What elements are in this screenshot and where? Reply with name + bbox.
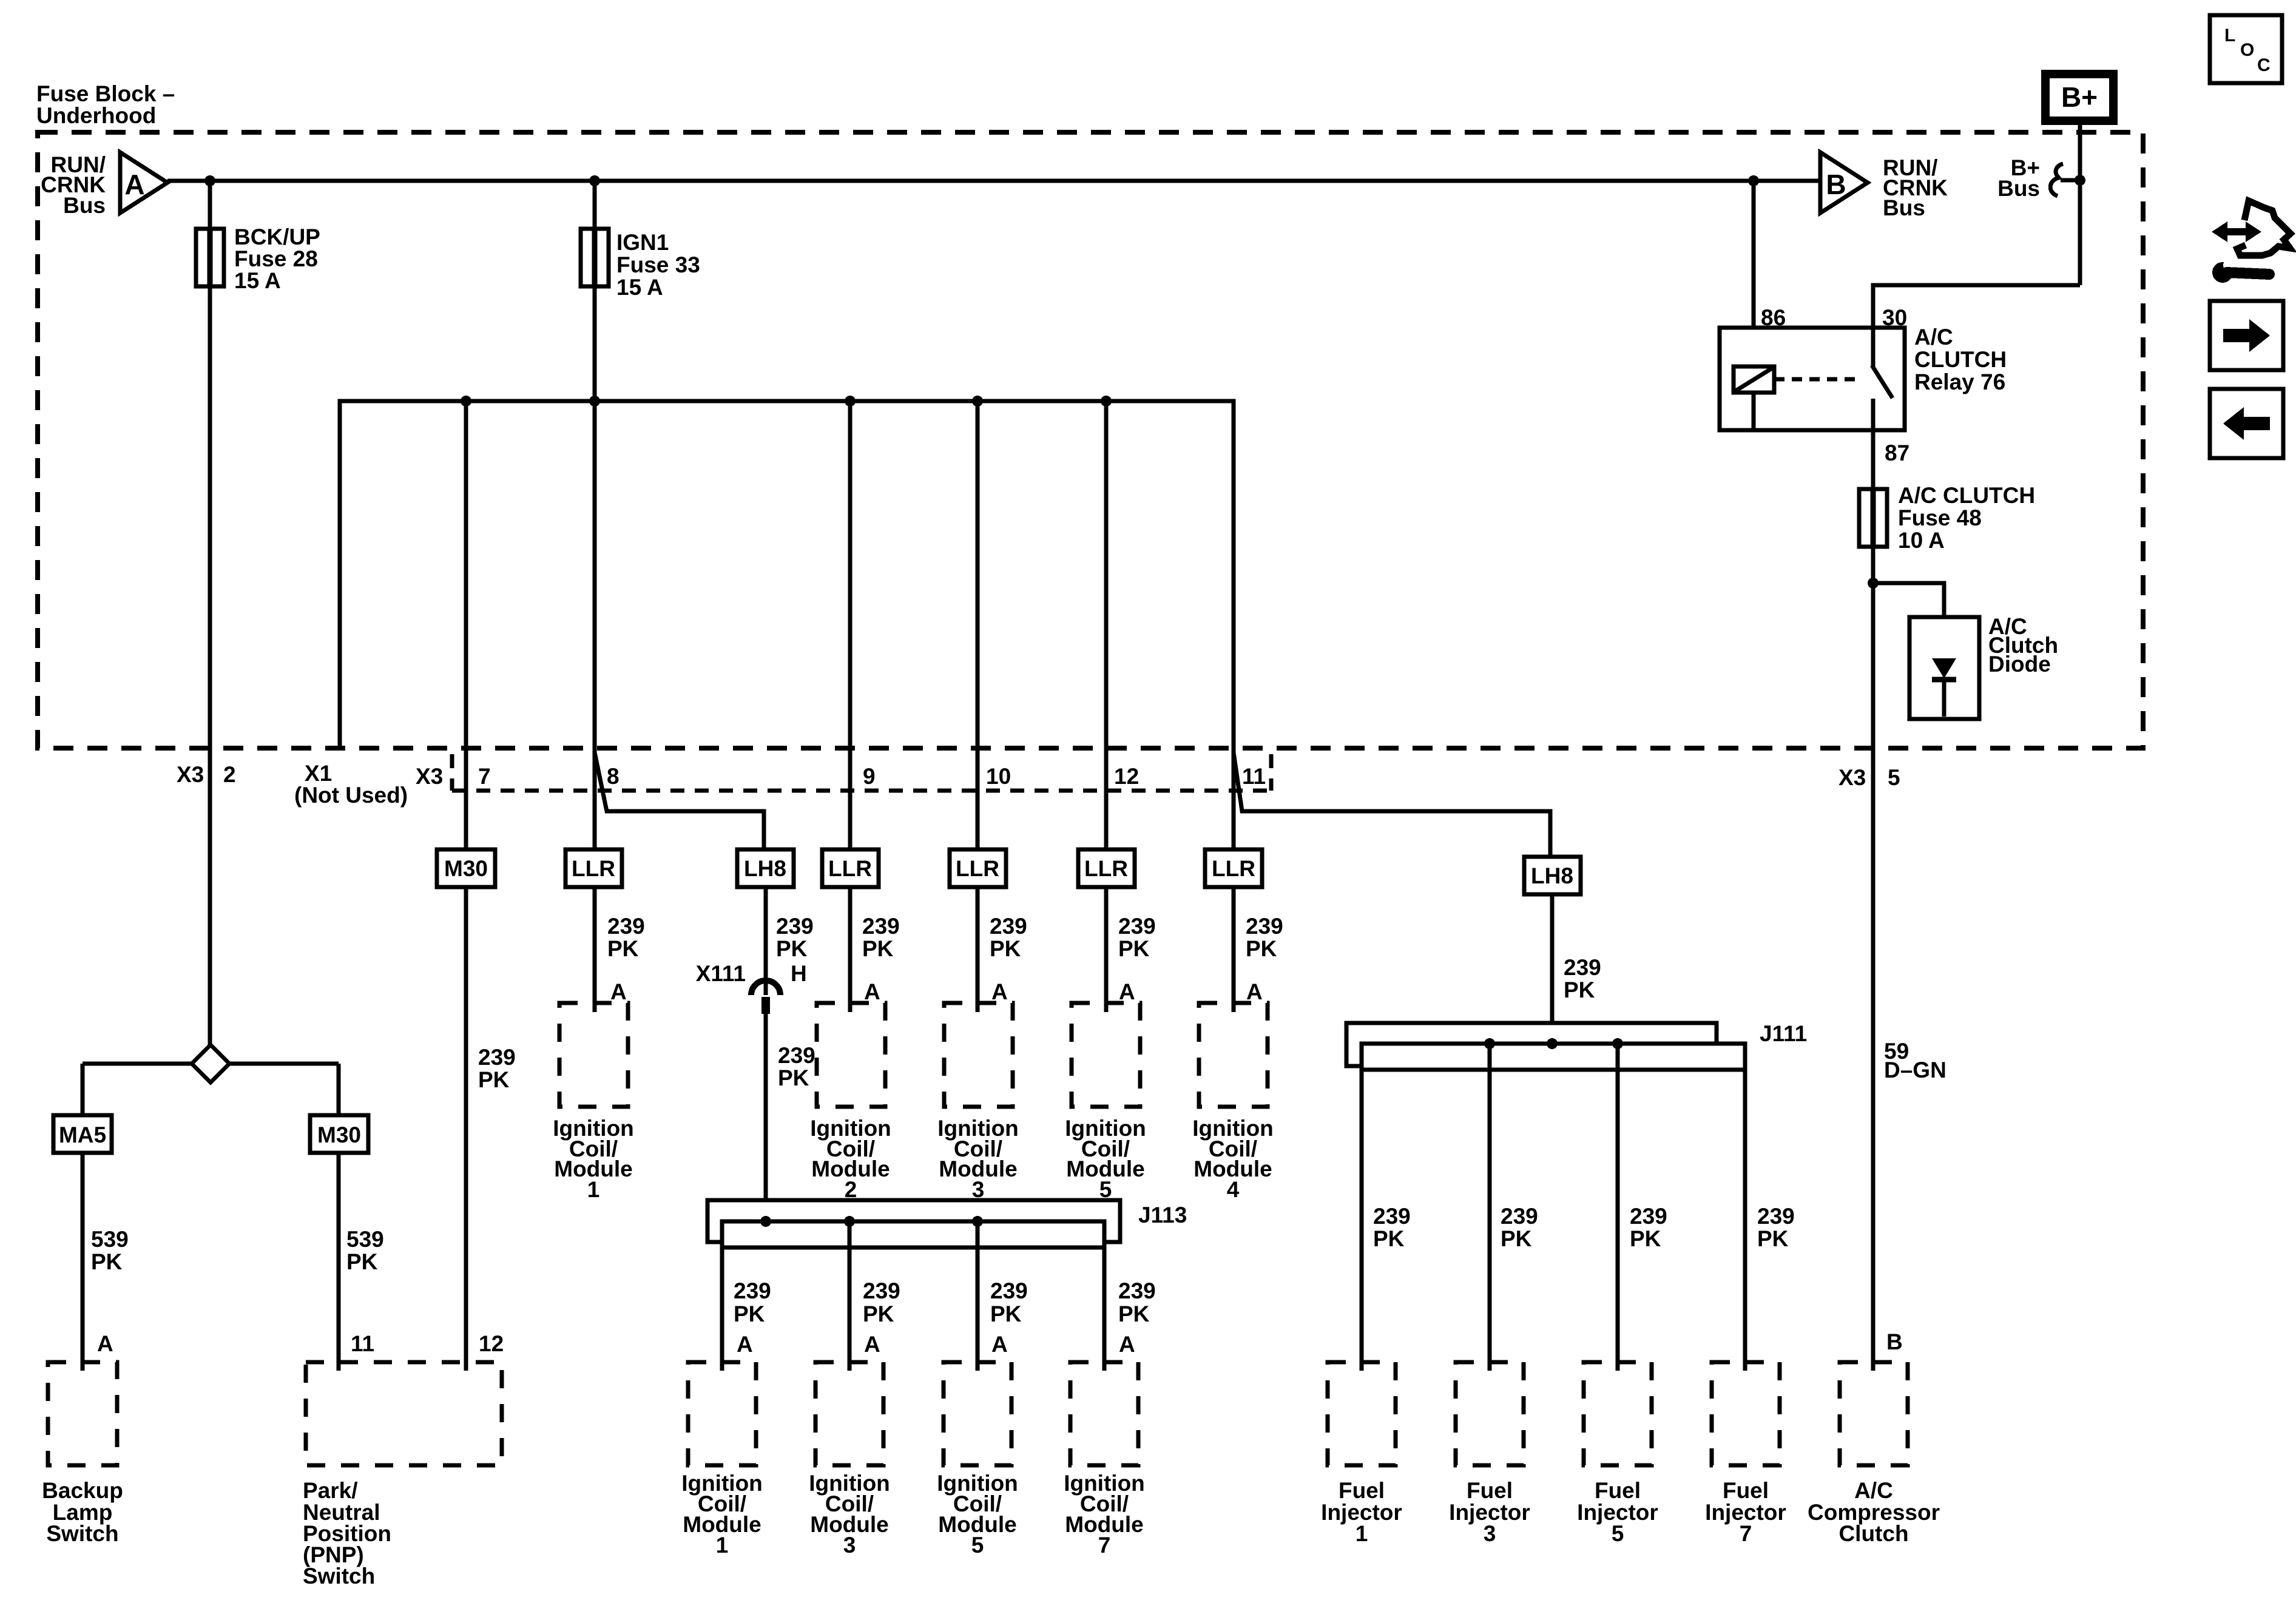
label 239 PK module2: [862, 914, 900, 961]
svg-text:BCK/UP: BCK/UP: [234, 224, 320, 249]
svg-text:PK: PK: [734, 1301, 765, 1326]
svg-text:Fuse 28: Fuse 28: [234, 246, 318, 271]
label 239 PK J111 col1: [1373, 1204, 1411, 1251]
svg-text:A: A: [97, 1331, 113, 1356]
wire LH8 right to J111: [1550, 894, 1555, 1044]
svg-text:539: 539: [346, 1227, 384, 1252]
connector LH8 right: [1524, 857, 1581, 894]
svg-text:J111: J111: [1760, 1021, 1807, 1046]
svg-text:9: 9: [863, 764, 876, 789]
relay switch blade: [1872, 365, 1893, 398]
forward arrow box: [2210, 301, 2283, 370]
svg-text:239: 239: [734, 1278, 771, 1303]
back arrow box: [2210, 389, 2283, 458]
wire pin11 to module 4: [1232, 887, 1236, 1012]
label X1 (Not Used): [294, 761, 408, 808]
svg-text:PK: PK: [478, 1067, 510, 1092]
wire fuse33 drop from bus: [593, 181, 597, 849]
wire to M30 lower: [337, 1064, 341, 1115]
svg-text:A: A: [124, 169, 144, 200]
svg-text:15 A: 15 A: [234, 268, 281, 293]
svg-text:87: 87: [1885, 441, 1909, 465]
svg-text:Relay 76: Relay 76: [1914, 370, 2005, 394]
node B+ bus junction: [2075, 175, 2085, 186]
wire fuse 48 down to X3 5: [1871, 547, 1876, 1371]
node J111 junction a: [1484, 1038, 1495, 1049]
svg-text:A: A: [991, 979, 1008, 1004]
A/C compressor clutch dashed box: [1840, 1362, 1908, 1465]
svg-text:3: 3: [1484, 1521, 1496, 1546]
wire MA5 to backup lamp switch: [81, 1153, 85, 1371]
svg-text:B+: B+: [2061, 81, 2098, 113]
svg-text:239: 239: [1630, 1204, 1667, 1229]
label A/C CLUTCH Relay 76: [1914, 325, 2007, 394]
ignition coil module 7 dashed box (bottom row): [1070, 1362, 1138, 1465]
svg-text:Fuse 33: Fuse 33: [616, 252, 700, 277]
svg-text:239: 239: [1501, 1204, 1538, 1229]
label Ignition Coil/Module 5: [1065, 1116, 1146, 1202]
wire pin7 column to M30: [464, 401, 468, 849]
svg-text:239: 239: [1246, 914, 1283, 939]
svg-text:PK: PK: [990, 1301, 1022, 1326]
node J111 input junction: [1547, 1038, 1558, 1049]
diagnostic icon jagged outline: [2237, 201, 2291, 255]
svg-text:Fuel: Fuel: [1723, 1478, 1769, 1503]
label Ignition Coil/Module 1 bottom: [681, 1471, 763, 1558]
svg-text:Fuse 48: Fuse 48: [1898, 505, 1982, 530]
wire relay pin 86 from bus: [1752, 181, 1756, 366]
svg-text:X111: X111: [696, 961, 746, 986]
fuse block underhood dashed border box: [38, 132, 2143, 748]
wire M30 upper to PNP pin 12: [464, 887, 468, 1371]
svg-text:LLR: LLR: [828, 856, 872, 881]
svg-text:239: 239: [863, 1278, 900, 1303]
wire pin10 to module 3: [976, 887, 980, 1012]
svg-text:12: 12: [1114, 764, 1139, 789]
label 539 PK right: [346, 1227, 384, 1274]
label RUN/CRNK Bus right: [1883, 155, 1948, 220]
svg-text:11: 11: [351, 1331, 374, 1356]
svg-text:PK: PK: [1246, 936, 1277, 961]
svg-text:(Not Used): (Not Used): [294, 783, 408, 808]
svg-text:2: 2: [223, 762, 236, 787]
svg-text:Bus: Bus: [1997, 176, 2040, 201]
svg-text:A/C CLUTCH: A/C CLUTCH: [1898, 483, 2035, 508]
label 239 PK module4: [1246, 914, 1283, 961]
relay coil: [1734, 366, 1774, 393]
diagnostic icon double arrow: [2212, 221, 2261, 242]
svg-text:PK: PK: [863, 1301, 894, 1326]
svg-text:Fuel: Fuel: [1467, 1478, 1513, 1503]
svg-text:X3: X3: [1838, 765, 1866, 790]
svg-text:LLR: LLR: [572, 856, 615, 881]
svg-text:PK: PK: [1118, 936, 1150, 961]
label 239 PK J113 col4: [1118, 1278, 1156, 1326]
svg-text:Switch: Switch: [303, 1564, 375, 1588]
svg-text:LLR: LLR: [956, 856, 999, 881]
label X3 2 connector pins: [177, 762, 236, 787]
label Ignition Coil/Module 5 bottom: [937, 1471, 1018, 1558]
label A/C Clutch Diode: [1988, 614, 2058, 677]
ignition coil module 4 dashed box: [1199, 1003, 1268, 1107]
wire pin10 column: [976, 401, 980, 849]
svg-text:X1: X1: [305, 761, 332, 786]
wire pin9 column: [848, 401, 853, 849]
label IGN1 Fuse 33 15 A: [616, 230, 700, 300]
fuse block underhood label: [36, 81, 175, 128]
wire ignition distribution bus: [340, 401, 1234, 849]
svg-text:12: 12: [479, 1331, 504, 1356]
wire pin12 column: [1104, 401, 1109, 849]
svg-text:3: 3: [843, 1533, 856, 1558]
label Ignition Coil/Module 7 bottom: [1064, 1471, 1145, 1558]
node bus-fuse33 junction: [589, 175, 600, 186]
svg-text:M30: M30: [444, 856, 488, 881]
wire J111 output 4: [1743, 1044, 1747, 1371]
svg-text:Underhood: Underhood: [36, 103, 156, 128]
wire pin11 jog branch to LH8 right: [1234, 752, 1550, 857]
svg-text:7: 7: [1098, 1533, 1111, 1558]
connector M30 upper: [437, 849, 495, 887]
svg-text:A: A: [1246, 979, 1263, 1004]
svg-text:239: 239: [607, 914, 645, 939]
wire pin8 jog branch to LH8: [595, 752, 764, 849]
svg-text:O: O: [2240, 40, 2254, 60]
svg-text:J113: J113: [1138, 1203, 1187, 1227]
svg-text:239: 239: [1564, 955, 1601, 980]
label Ignition Coil/Module 2: [810, 1116, 891, 1202]
node bus-fuse28 junction: [204, 175, 215, 186]
backup lamp switch dashed box: [48, 1362, 117, 1465]
wire fuse28 drop from bus: [208, 181, 212, 1045]
svg-text:B: B: [1826, 169, 1846, 200]
splice diamond: [192, 1045, 229, 1082]
label Fuel Injector 3: [1449, 1478, 1530, 1546]
svg-text:PK: PK: [776, 936, 808, 961]
svg-text:7: 7: [478, 764, 491, 789]
label Fuel Injector 1: [1321, 1478, 1402, 1546]
connector LLR pin9: [822, 849, 879, 887]
connector M30 lower: [310, 1115, 368, 1153]
label Park/Neutral Position (PNP) Switch: [303, 1478, 391, 1588]
connector strip right tick: [1269, 754, 1274, 791]
PNP switch dashed box: [306, 1362, 502, 1465]
splice pack J111 outer box: [1346, 1023, 1717, 1066]
svg-text:PK: PK: [1564, 977, 1595, 1002]
svg-text:MA5: MA5: [59, 1122, 106, 1147]
label A/C Compressor Clutch: [1808, 1478, 1940, 1546]
svg-text:X3: X3: [416, 764, 443, 789]
svg-text:539: 539: [91, 1227, 129, 1252]
svg-text:A: A: [737, 1332, 753, 1357]
label 239 PK J113 col1: [734, 1278, 771, 1326]
svg-text:8: 8: [607, 764, 620, 789]
svg-text:239: 239: [1373, 1204, 1411, 1229]
label 239 PK J111 col4: [1757, 1204, 1795, 1251]
node J113 junction b: [844, 1216, 855, 1227]
connector MA5: [53, 1115, 112, 1153]
node J113 junction c: [972, 1216, 983, 1227]
svg-text:LLR: LLR: [1084, 856, 1128, 881]
svg-text:PK: PK: [1373, 1226, 1405, 1251]
svg-text:PK: PK: [1118, 1301, 1150, 1326]
svg-text:239: 239: [1757, 1204, 1795, 1229]
svg-text:A: A: [610, 979, 627, 1004]
node diode branch junction: [1868, 578, 1879, 589]
wire pin12 to module 5: [1104, 887, 1109, 1012]
node dist-10 junction: [972, 396, 983, 407]
ignition coil module 5 dashed box (bottom row): [944, 1362, 1011, 1465]
label 239 PK J111 col2: [1501, 1204, 1538, 1251]
node dist-12 junction: [1101, 396, 1112, 407]
svg-text:IGN1: IGN1: [616, 230, 669, 255]
svg-text:239: 239: [478, 1045, 516, 1070]
label Backup Lamp Switch: [42, 1478, 123, 1546]
svg-text:Clutch: Clutch: [1838, 1521, 1908, 1546]
svg-text:239: 239: [778, 1043, 815, 1068]
wire M30 to PNP switch pin 11: [337, 1153, 341, 1371]
label BCK/UP Fuse 28 15 A: [234, 224, 320, 293]
fuse 48 A/C CLUTCH: [1859, 489, 1887, 547]
svg-text:C: C: [2257, 55, 2271, 75]
svg-text:PK: PK: [990, 936, 1021, 961]
wire LH8 to X111: [764, 887, 768, 995]
ignition coil module 1 dashed box (bottom row): [688, 1362, 756, 1465]
wire diamond horizontal: [83, 1062, 192, 1066]
label 239 PK LH8 column: [776, 914, 814, 961]
wire to MA5: [81, 1064, 85, 1115]
svg-text:Diode: Diode: [1988, 652, 2051, 677]
connector LLR pin11: [1205, 849, 1262, 887]
label Ignition Coil/Module 3 bottom: [809, 1471, 890, 1558]
connector LLR pin8 column: [566, 849, 622, 887]
wire RUN/CRNK bus horizontal: [167, 179, 1820, 183]
svg-text:LLR: LLR: [1212, 856, 1255, 881]
label 239 PK module1: [607, 914, 645, 961]
svg-text:LH8: LH8: [1531, 863, 1573, 888]
label Fuel Injector 5: [1577, 1478, 1658, 1546]
fuse 33 IGN1: [581, 229, 609, 286]
svg-text:15 A: 15 A: [616, 275, 663, 300]
triangle B (RUN/CRNK bus): [1820, 152, 1868, 213]
wire J111 output 3: [1616, 1044, 1620, 1371]
wire J113 output 4: [1102, 1221, 1107, 1371]
svg-text:4: 4: [1227, 1177, 1240, 1202]
wire B+ bus stub: [2061, 178, 2080, 183]
label A/C CLUTCH Fuse 48 10 A: [1898, 483, 2035, 553]
label RUN/CRNK Bus left: [41, 152, 106, 218]
label 239 PK pin7 column: [478, 1045, 516, 1092]
connector LH8 left: [737, 849, 794, 887]
B+ terminal box: [2045, 74, 2113, 121]
svg-text:M30: M30: [317, 1122, 361, 1147]
fuel injector 7 dashed box: [1712, 1362, 1780, 1465]
svg-text:Bus: Bus: [1883, 195, 1925, 220]
svg-text:A: A: [991, 1332, 1008, 1357]
svg-text:5: 5: [1888, 765, 1900, 790]
splice pack J113 inner box: [722, 1221, 1104, 1247]
wire branch to diode: [1873, 583, 1944, 661]
ignition coil module 1 dashed box (middle row): [559, 1003, 628, 1107]
wire J113 output 2: [848, 1221, 852, 1371]
ignition coil module 5 dashed box: [1072, 1003, 1140, 1107]
connector strip dashed band bottom edge: [452, 789, 1271, 793]
connector X111 terminal bar: [761, 997, 770, 1014]
svg-text:1: 1: [587, 1177, 600, 1202]
node dist-8 junction: [589, 396, 600, 407]
svg-text:239: 239: [1118, 1278, 1156, 1303]
svg-text:B: B: [1886, 1329, 1903, 1354]
svg-text:D–GN: D–GN: [1884, 1058, 1947, 1082]
svg-text:A: A: [1119, 979, 1135, 1004]
svg-text:A/C: A/C: [1854, 1478, 1893, 1503]
svg-text:Fuse Block –: Fuse Block –: [36, 81, 175, 106]
diagnostic icon wrench: [2212, 259, 2269, 283]
label 239 PK LH8 right: [1564, 955, 1601, 1002]
node dist-7 junction: [461, 396, 471, 407]
svg-text:A: A: [864, 1332, 880, 1357]
svg-text:PK: PK: [346, 1249, 378, 1274]
svg-text:PK: PK: [862, 936, 894, 961]
svg-text:5: 5: [1612, 1521, 1624, 1546]
LOC legend box: [2210, 15, 2282, 83]
node dist-9 junction: [845, 396, 856, 407]
label 59 D-GN: [1884, 1039, 1947, 1082]
svg-text:Switch: Switch: [46, 1521, 118, 1546]
connector strip left tick: [450, 754, 454, 791]
svg-text:A/C: A/C: [1914, 325, 1953, 349]
wire J113 output 1: [720, 1221, 724, 1371]
svg-text:Backup: Backup: [42, 1478, 123, 1503]
wire J113 output 3: [976, 1221, 980, 1371]
svg-text:239: 239: [990, 1278, 1028, 1303]
svg-text:PK: PK: [607, 936, 639, 961]
label 239 PK module5: [1118, 914, 1156, 961]
svg-text:H: H: [791, 961, 807, 986]
relay control dashed line: [1774, 377, 1862, 382]
label Ignition Coil/Module 4: [1192, 1116, 1274, 1202]
svg-text:L: L: [2224, 25, 2235, 46]
label 239 PK J111 col3: [1630, 1204, 1667, 1251]
wire B+ feed to relay pin 30: [1873, 285, 2080, 328]
svg-text:239: 239: [1118, 914, 1156, 939]
label B+ Bus: [1997, 155, 2040, 201]
connector LLR pin12: [1078, 849, 1135, 887]
label Ignition Coil/Module 1 middle: [553, 1116, 634, 1202]
relay U76 A/C CLUTCH box: [1720, 328, 1905, 430]
svg-text:Park/: Park/: [303, 1478, 358, 1503]
svg-text:CLUTCH: CLUTCH: [1914, 347, 2007, 372]
svg-text:LH8: LH8: [744, 856, 786, 881]
connector LLR pin10: [950, 849, 1006, 887]
svg-text:239: 239: [776, 914, 814, 939]
A/C clutch diode box: [1909, 617, 1979, 719]
fuel injector 1 dashed box: [1328, 1362, 1396, 1465]
splice pack J111 inner box: [1362, 1044, 1745, 1070]
svg-text:A: A: [1119, 1332, 1135, 1357]
splice pack J113 outer box: [707, 1200, 1120, 1242]
svg-text:PK: PK: [91, 1249, 123, 1274]
svg-text:1: 1: [716, 1533, 729, 1558]
svg-text:PK: PK: [1757, 1226, 1789, 1251]
svg-text:7: 7: [1740, 1521, 1752, 1546]
label 239 PK J113 col2: [863, 1278, 900, 1326]
wire pin8 to ignition coil module 1: [593, 887, 597, 1012]
svg-text:A: A: [864, 979, 880, 1004]
svg-text:239: 239: [862, 914, 900, 939]
label 539 PK left: [91, 1227, 129, 1274]
node J113 input junction: [760, 1216, 771, 1227]
wire relay pin 87: [1871, 399, 1876, 489]
label X3 7 pins: [416, 764, 491, 789]
svg-text:Fuel: Fuel: [1339, 1478, 1385, 1503]
ignition coil module 2 dashed box: [817, 1003, 885, 1107]
wire relay pin30 to switch pivot: [1871, 328, 1876, 366]
fuse 28 BCK/UP: [196, 229, 224, 286]
fuel injector 5 dashed box: [1584, 1362, 1652, 1465]
svg-text:11: 11: [1242, 764, 1266, 789]
connector X111 arc: [751, 981, 780, 995]
label X3 5 pins: [1838, 765, 1900, 790]
label 239 PK X111 column: [778, 1043, 815, 1090]
svg-text:10 A: 10 A: [1898, 528, 1945, 553]
ignition coil module 3 dashed box (bottom row): [815, 1362, 883, 1465]
label Ignition Coil/Module 3: [937, 1116, 1019, 1202]
fuel injector 3 dashed box: [1456, 1362, 1524, 1465]
ignition coil module 3 dashed box: [944, 1003, 1013, 1107]
wire J111 output 1: [1360, 1044, 1364, 1371]
svg-text:5: 5: [971, 1533, 984, 1558]
svg-text:10: 10: [986, 764, 1011, 789]
wire coil to relay box bottom: [1752, 393, 1756, 430]
wire pin9 to module 2: [848, 887, 853, 1012]
label 239 PK module3: [990, 914, 1027, 961]
wire from B+ box down: [2078, 121, 2082, 285]
label 239 PK J113 col3: [990, 1278, 1028, 1326]
node J111 junction b: [1612, 1038, 1623, 1049]
diode symbol: [1932, 658, 1956, 717]
svg-text:PK: PK: [1630, 1226, 1661, 1251]
svg-text:239: 239: [990, 914, 1027, 939]
B+ bus hook symbol: [2050, 164, 2063, 196]
label Fuel Injector 7: [1705, 1478, 1786, 1546]
svg-text:Bus: Bus: [63, 193, 106, 218]
triangle A (RUN/CRNK bus source): [120, 152, 167, 213]
svg-text:1: 1: [1356, 1521, 1368, 1546]
svg-text:Fuel: Fuel: [1595, 1478, 1641, 1503]
wire X111 to J113: [764, 1014, 768, 1221]
svg-text:X3: X3: [177, 762, 204, 787]
svg-text:PK: PK: [778, 1065, 809, 1090]
wire J111 output 2: [1488, 1044, 1492, 1371]
node bus-relay86 junction: [1748, 175, 1759, 186]
svg-text:PK: PK: [1501, 1226, 1532, 1251]
